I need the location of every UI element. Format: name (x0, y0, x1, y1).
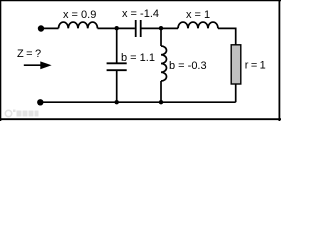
arrow into network (24, 64, 42, 66)
svg-text:Z = ?: Z = ? (17, 48, 41, 60)
wire resistor to bottom rail (235, 84, 237, 102)
bottom rail wire (40, 101, 235, 103)
inductor L3 b=-0.3 (161, 46, 167, 81)
node D junction bottom (159, 100, 163, 104)
wire between L1 and C1 (98, 27, 135, 29)
watermark (5, 110, 38, 117)
svg-text:x = -1.4: x = -1.4 (122, 8, 159, 20)
wire between C1 and L2 (142, 27, 179, 29)
wire shunt inductor top (160, 28, 162, 46)
wire shunt inductor bottom (160, 81, 162, 102)
wire from L2 to resistor (218, 28, 236, 44)
node C junction bottom (115, 100, 119, 104)
node A junction (115, 26, 119, 30)
wire shunt cap top (116, 28, 118, 63)
inductor L2 x=1 (178, 22, 218, 28)
node B junction (159, 26, 163, 30)
wire top rail left (41, 27, 59, 29)
capacitor C2 b=1.1 plates (107, 63, 127, 70)
resistor R1 r=1 (231, 45, 241, 84)
capacitor C1 x=-1.4 plates (136, 20, 141, 37)
svg-text:x = 1: x = 1 (186, 9, 210, 21)
svg-text:b = -0.3: b = -0.3 (169, 60, 207, 72)
inductor L1 x=0.9 (59, 22, 98, 28)
border frame (0, 0, 281, 2)
svg-text:x = 0.9: x = 0.9 (63, 9, 96, 21)
node terminal bottom-left (37, 99, 43, 105)
svg-text:b = 1.1: b = 1.1 (121, 52, 155, 64)
svg-text:r = 1: r = 1 (245, 59, 266, 71)
wire shunt cap bottom (116, 70, 118, 102)
node terminal top-left (38, 25, 44, 31)
